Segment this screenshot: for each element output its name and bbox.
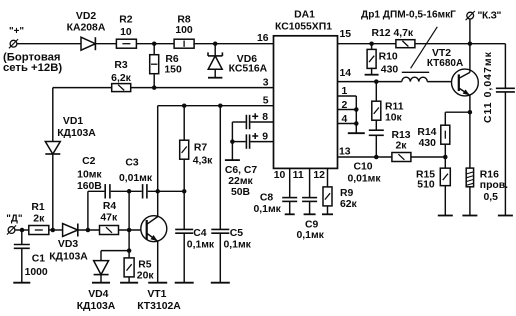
svg-text:"+": "+": [9, 26, 24, 37]
svg-text:R14: R14: [417, 127, 436, 138]
svg-text:VD1: VD1: [63, 116, 83, 127]
svg-text:"К.З": "К.З": [478, 10, 502, 21]
svg-text:R9: R9: [340, 188, 354, 199]
svg-text:5: 5: [263, 96, 269, 107]
svg-text:КД103А: КД103А: [49, 251, 88, 262]
svg-text:3: 3: [263, 77, 269, 88]
svg-text:1000: 1000: [25, 267, 48, 278]
svg-text:4,3к: 4,3к: [193, 156, 213, 167]
svg-text:С10: С10: [353, 161, 372, 172]
svg-text:С8: С8: [260, 192, 274, 203]
svg-text:11: 11: [293, 170, 304, 181]
svg-text:С6, С7: С6, С7: [225, 165, 258, 176]
svg-text:150: 150: [164, 64, 182, 75]
svg-text:R1: R1: [31, 202, 45, 213]
svg-text:12: 12: [313, 170, 325, 181]
svg-text:2к: 2к: [33, 213, 45, 224]
svg-text:С4: С4: [193, 228, 207, 239]
svg-text:62к: 62к: [340, 199, 358, 210]
svg-text:КС1055ХП1: КС1055ХП1: [275, 21, 332, 32]
svg-text:100: 100: [175, 25, 193, 36]
svg-text:20к: 20к: [137, 270, 155, 281]
svg-text:R4: R4: [103, 201, 117, 212]
svg-text:0,01мк: 0,01мк: [119, 173, 153, 184]
svg-text:КА208А: КА208А: [67, 22, 106, 33]
svg-text:0,1мк: 0,1мк: [297, 230, 325, 241]
svg-text:VT1: VT1: [147, 289, 166, 300]
svg-text:430: 430: [419, 138, 437, 149]
svg-text:R12 4,7к: R12 4,7к: [372, 28, 414, 39]
svg-text:16: 16: [257, 33, 269, 44]
svg-text:R5: R5: [138, 260, 152, 271]
svg-text:VD4: VD4: [88, 289, 108, 300]
svg-text:"Д": "Д": [6, 214, 22, 225]
svg-text:10: 10: [120, 27, 132, 38]
svg-text:пров.: пров.: [480, 180, 508, 191]
svg-text:8: 8: [262, 112, 268, 123]
svg-text:С2: С2: [82, 156, 96, 167]
svg-text:VD3: VD3: [58, 239, 78, 250]
svg-text:R7: R7: [194, 143, 208, 154]
svg-text:С1: С1: [32, 253, 46, 264]
svg-text:0,1мк: 0,1мк: [187, 239, 215, 250]
svg-text:R6: R6: [165, 54, 179, 65]
svg-text:С5: С5: [230, 228, 244, 239]
svg-text:1: 1: [342, 86, 348, 97]
svg-text:R2: R2: [119, 15, 133, 26]
svg-text:R11: R11: [385, 102, 404, 113]
svg-text:47к: 47к: [100, 212, 118, 223]
svg-text:13: 13: [339, 146, 351, 157]
svg-text:КД103А: КД103А: [57, 128, 96, 139]
svg-text:С9: С9: [305, 219, 319, 230]
svg-text:КС516А: КС516А: [229, 64, 268, 75]
svg-text:14: 14: [340, 68, 352, 79]
svg-text:0,01мк: 0,01мк: [347, 173, 381, 184]
svg-text:0,1мк: 0,1мк: [254, 204, 282, 215]
svg-text:510: 510: [417, 180, 435, 191]
svg-text:22мк: 22мк: [228, 176, 253, 187]
svg-text:10: 10: [274, 170, 286, 181]
svg-text:10к: 10к: [385, 113, 403, 124]
svg-text:R10: R10: [379, 52, 398, 63]
svg-text:9: 9: [262, 132, 268, 143]
svg-text:КД103А: КД103А: [77, 301, 116, 312]
svg-text:сеть +12В): сеть +12В): [3, 62, 62, 74]
svg-text:КТ680А: КТ680А: [427, 58, 463, 69]
svg-text:DA1: DA1: [294, 9, 315, 20]
svg-text:6,2к: 6,2к: [111, 73, 131, 84]
svg-text:С11 0,047мк: С11 0,047мк: [483, 51, 494, 123]
svg-text:R3: R3: [114, 60, 128, 71]
svg-text:0,1мк: 0,1мк: [224, 239, 252, 250]
svg-text:Др1 ДПМ-0,5-16мкГ: Др1 ДПМ-0,5-16мкГ: [361, 9, 456, 20]
svg-text:2: 2: [342, 100, 348, 111]
svg-text:КТ3102А: КТ3102А: [137, 301, 181, 312]
svg-text:4: 4: [342, 114, 348, 125]
svg-text:2к: 2к: [396, 141, 408, 152]
svg-text:R13: R13: [391, 130, 410, 141]
svg-text:0,5: 0,5: [484, 192, 499, 203]
svg-text:430: 430: [381, 65, 399, 76]
svg-text:50В: 50В: [231, 187, 251, 198]
svg-text:VD2: VD2: [76, 11, 96, 22]
svg-text:С3: С3: [125, 157, 139, 168]
svg-text:160В: 160В: [77, 181, 102, 192]
svg-text:15: 15: [340, 29, 352, 40]
svg-text:10мк: 10мк: [77, 170, 102, 181]
